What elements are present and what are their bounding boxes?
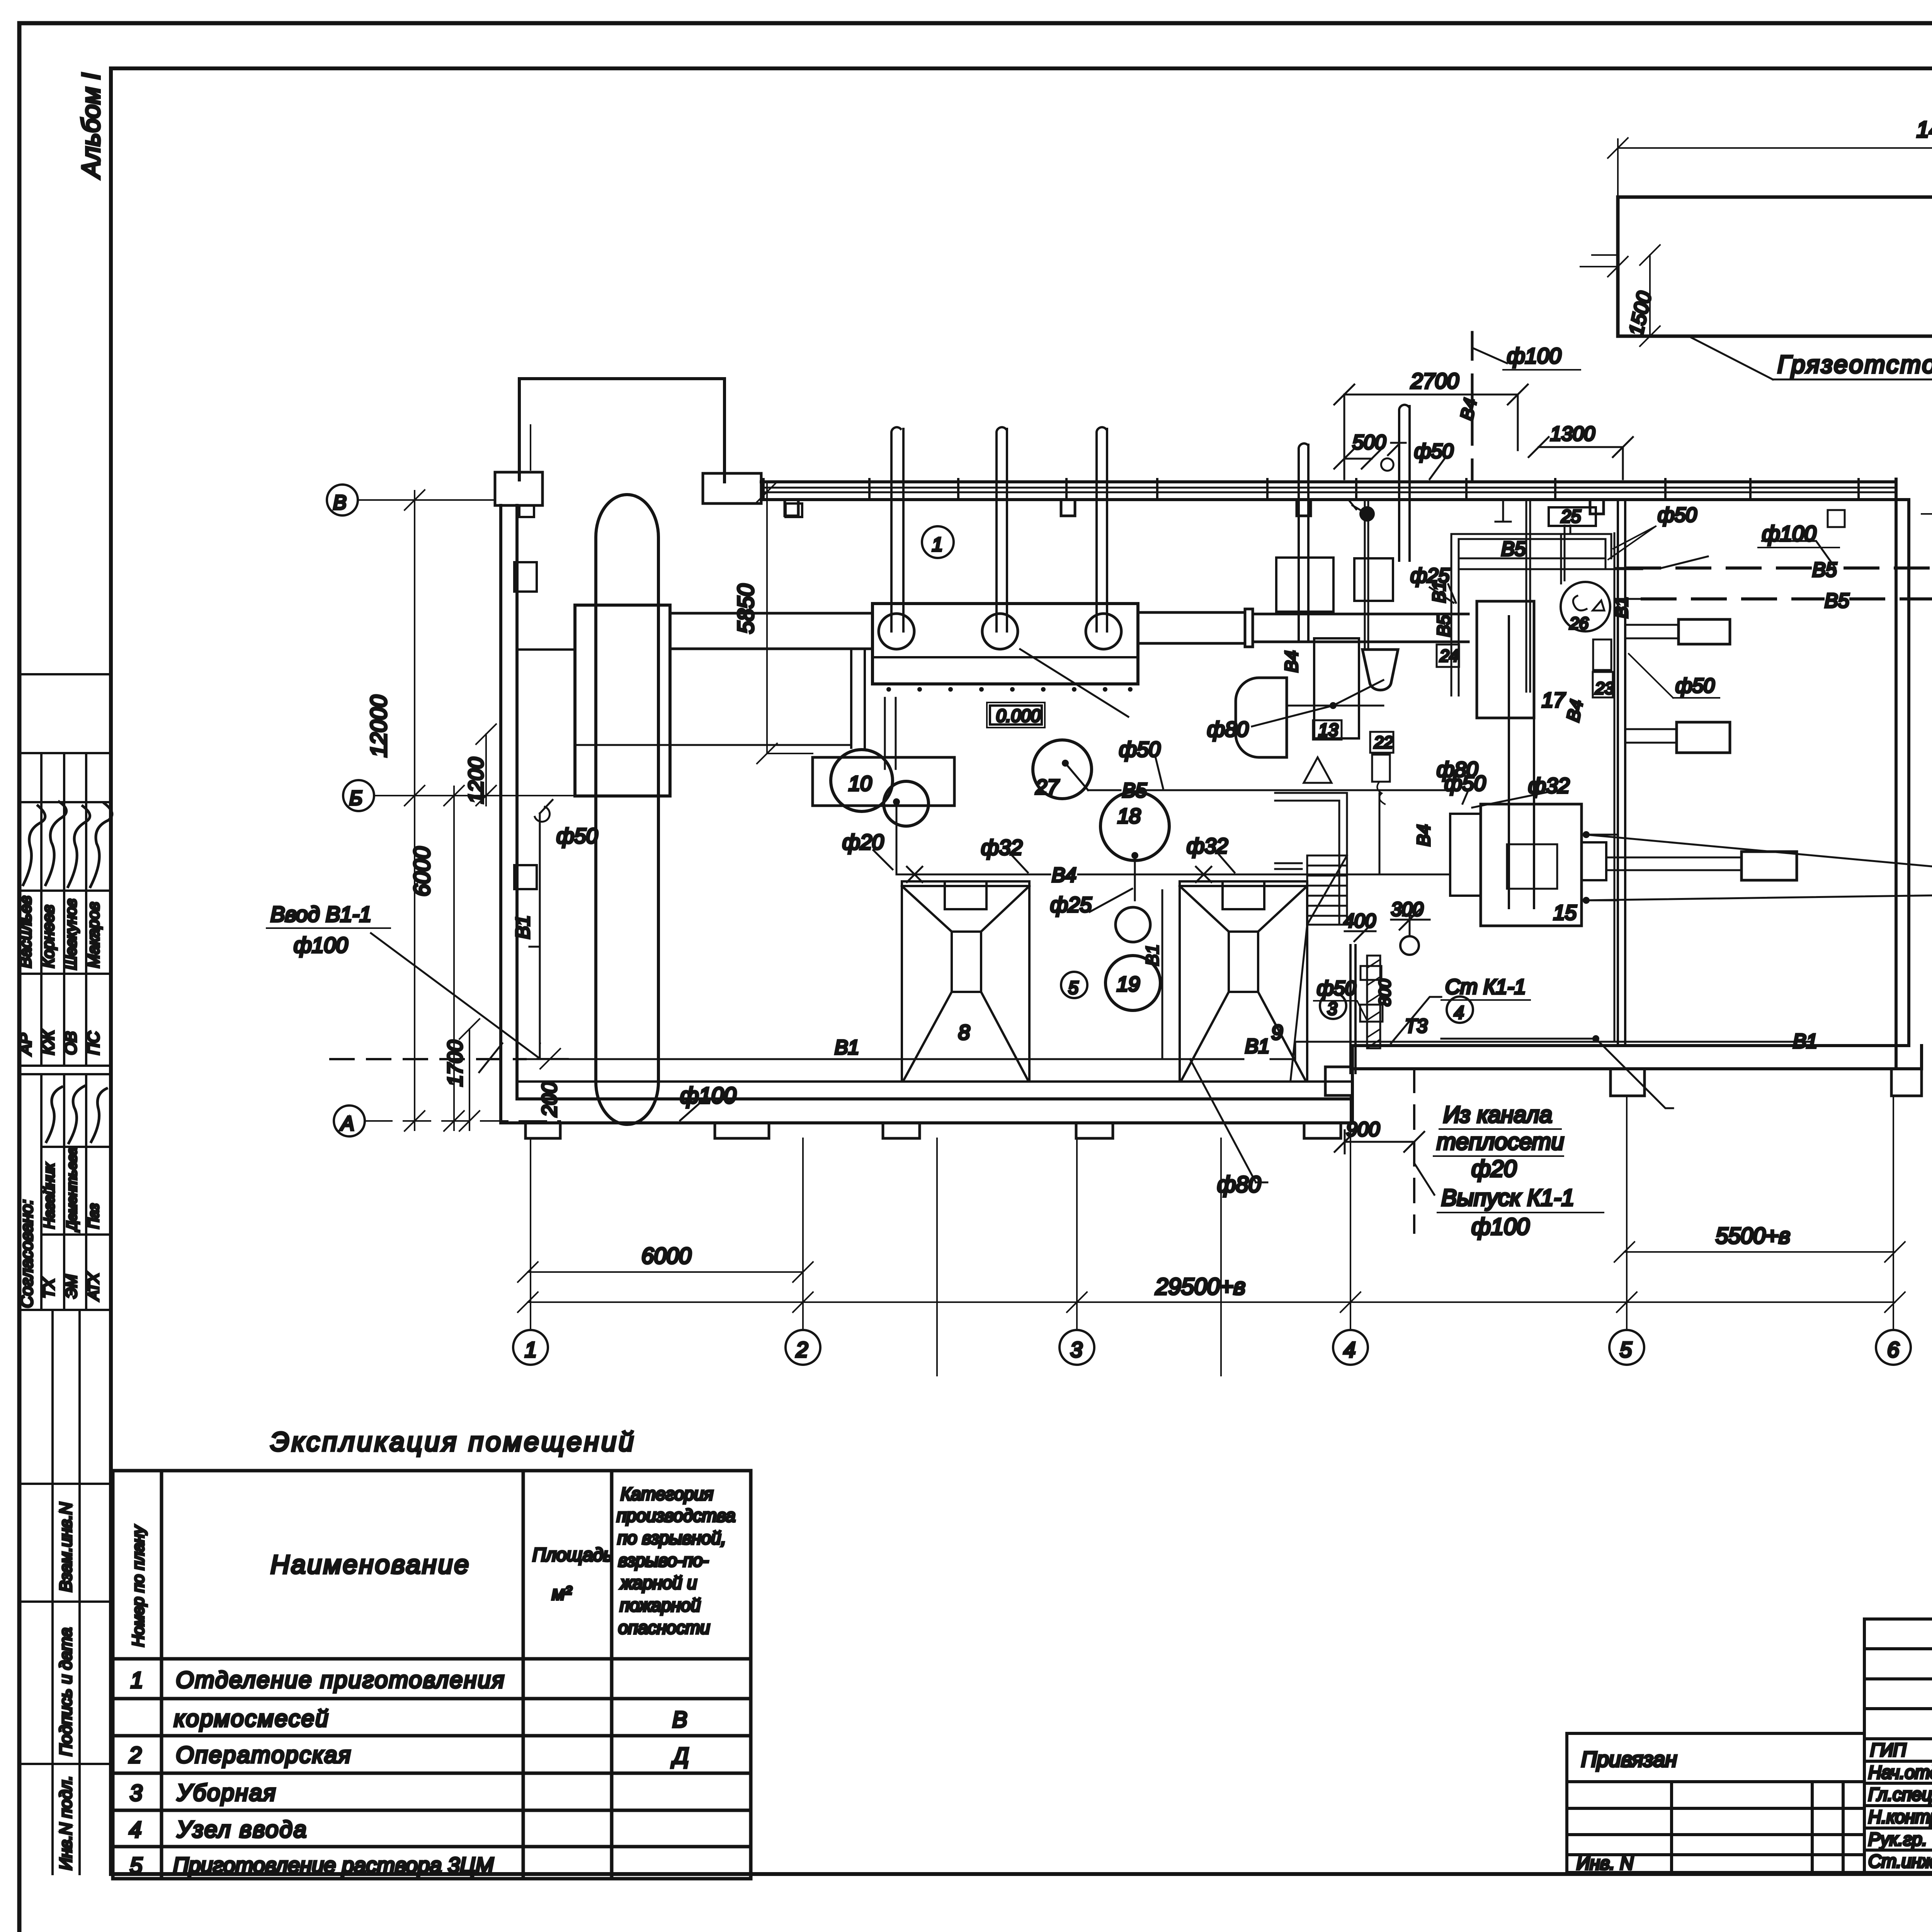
- svg-text:ф20: ф20: [842, 830, 884, 854]
- svg-text:В4: В4: [1413, 825, 1434, 846]
- axis circle 4: [1333, 1330, 1368, 1365]
- leader Ф25 long right: [1586, 835, 1932, 900]
- signature squiggle 6: [69, 1086, 84, 1143]
- svg-text:Площадь: Площадь: [532, 1545, 613, 1565]
- svg-text:800: 800: [1376, 979, 1394, 1006]
- svg-text:5: 5: [1620, 1337, 1632, 1362]
- axis circle 3: [1060, 1330, 1094, 1365]
- mixer body: [872, 604, 1138, 684]
- step between bottom walls: [1351, 1046, 1354, 1099]
- pipe B5 dashed right bottom: [1642, 336, 1932, 599]
- svg-text:по взрывной,: по взрывной,: [617, 1528, 726, 1548]
- svg-text:Васильев: Васильев: [16, 896, 34, 968]
- svg-text:1300: 1300: [1550, 423, 1595, 445]
- svg-text:1500: 1500: [1625, 289, 1656, 338]
- svg-text:1700: 1700: [444, 1040, 467, 1087]
- machine 15 left attach: [1450, 814, 1481, 896]
- leader Ф100 bottom left: [680, 1097, 707, 1121]
- dims 450 950: [1580, 257, 1932, 346]
- svg-text:В4: В4: [1281, 651, 1301, 672]
- funnel symbol near pipe4: [1304, 757, 1332, 783]
- right side equip rect 1: [1679, 619, 1730, 644]
- svg-text:Инв.N подл.: Инв.N подл.: [56, 1776, 75, 1870]
- chimney pipe 3: [1097, 427, 1107, 631]
- svg-text:В1: В1: [1611, 597, 1631, 618]
- equipment 10 box: [813, 757, 954, 806]
- axis circle Б: [343, 780, 374, 811]
- leader Ф100 top: [1472, 348, 1507, 363]
- conveyor duct from tank: [670, 613, 872, 649]
- svg-text:2: 2: [129, 1743, 141, 1768]
- pilaster top wall left end: [703, 473, 761, 503]
- svg-text:В1: В1: [1429, 581, 1449, 603]
- box left of pipe4: [1276, 558, 1333, 612]
- svg-text:4: 4: [1454, 1002, 1464, 1022]
- svg-text:ф80: ф80: [1437, 757, 1478, 781]
- pipe B1 ввод vertical left: [526, 813, 540, 1059]
- pilaster top-left: [495, 472, 543, 505]
- equip below 22: [1372, 755, 1390, 782]
- signature squiggle 2: [46, 802, 66, 885]
- svg-text:5: 5: [130, 1853, 143, 1878]
- svg-text:ПС: ПС: [84, 1031, 102, 1055]
- leader Ф32 left: [1012, 856, 1028, 872]
- pipe from 18 down: [1134, 855, 1136, 900]
- equipment 10 small circle: [884, 781, 929, 826]
- svg-text:Номер по плану: Номер по плану: [129, 1525, 147, 1647]
- pipe T3: [1441, 1038, 1596, 1040]
- top-left annex walls: [519, 379, 724, 482]
- svg-text:1: 1: [525, 1337, 537, 1362]
- label box 24: [1437, 645, 1459, 667]
- mixer diagonal pointer: [1020, 649, 1128, 717]
- svg-text:ф50: ф50: [556, 824, 598, 848]
- svg-text:Узел ввода: Узел ввода: [177, 1816, 308, 1842]
- bottom dim 29500: [518, 1292, 1905, 1312]
- svg-text:Согласовано:: Согласовано:: [17, 1199, 36, 1308]
- leader Ф50 right: [1662, 556, 1708, 568]
- svg-text:10: 10: [849, 772, 872, 795]
- svg-text:24: 24: [1439, 646, 1459, 665]
- wall to jacket link: [517, 648, 575, 651]
- svg-text:400: 400: [1344, 910, 1376, 932]
- svg-text:АТХ: АТХ: [86, 1272, 102, 1301]
- svg-text:26: 26: [1569, 614, 1588, 633]
- leader Ф80 mid: [1252, 706, 1333, 726]
- leader Ф32 bundle: [1472, 792, 1548, 808]
- dim 5850 vertical: [757, 482, 813, 764]
- svg-text:Наименование: Наименование: [270, 1550, 470, 1579]
- svg-text:взрыво-по-: взрыво-по-: [618, 1550, 709, 1570]
- svg-text:17: 17: [1542, 689, 1566, 712]
- svg-text:м²: м²: [552, 1582, 572, 1604]
- svg-text:Подпись и дата: Подпись и дата: [56, 1628, 75, 1756]
- axis 6 vertical: [1893, 1096, 1894, 1330]
- pump 13 rounded: [1236, 678, 1287, 757]
- left wall pilaster b: [514, 865, 537, 889]
- svg-text:ф100: ф100: [294, 933, 348, 957]
- axis circle 5: [1609, 1330, 1644, 1365]
- foundation line under hopper9: [1220, 1138, 1222, 1376]
- svg-text:Ст К1-1: Ст К1-1: [1445, 975, 1526, 998]
- svg-text:6000: 6000: [641, 1243, 691, 1269]
- dim 2720/3500 vertical: [1922, 187, 1932, 524]
- pipe B4 horiz from 13: [1287, 680, 1383, 706]
- svg-text:В5: В5: [1812, 559, 1837, 581]
- pipe B4 dashed vertical above wall: [1471, 332, 1474, 479]
- svg-text:6: 6: [1887, 1337, 1900, 1362]
- small circle above 19: [1116, 907, 1150, 942]
- svg-text:ф100: ф100: [1762, 521, 1816, 546]
- dim 300: [1391, 910, 1430, 930]
- riser stub 2: [885, 698, 896, 769]
- chimney pipe 1: [891, 427, 903, 631]
- svg-text:ф32: ф32: [981, 835, 1022, 859]
- bottom dim 6000: [518, 1262, 813, 1282]
- svg-text:500: 500: [1352, 431, 1386, 454]
- svg-text:В1: В1: [1245, 1035, 1270, 1058]
- signature squiggle 4: [90, 803, 112, 887]
- leader Ф50 bundle: [1430, 587, 1454, 603]
- label box 22: [1370, 732, 1393, 753]
- svg-text:ф80: ф80: [1207, 717, 1249, 741]
- axis line В: [358, 499, 495, 501]
- label box 23: [1593, 639, 1611, 670]
- leader СтК1: [1391, 997, 1441, 1043]
- svg-text:Нагайник: Нагайник: [41, 1163, 58, 1229]
- B1 stubs to Ф25 dots: [1586, 835, 1618, 900]
- axis circle 6: [1876, 1330, 1911, 1365]
- svg-text:5850: 5850: [733, 584, 759, 634]
- signature squiggle 7: [91, 1088, 107, 1142]
- staff table: [1864, 1619, 1932, 1872]
- dim 14720: [1608, 138, 1932, 197]
- room circle 1: [922, 526, 954, 558]
- svg-text:2: 2: [796, 1337, 808, 1362]
- svg-text:ф32: ф32: [1528, 774, 1570, 798]
- svg-text:жарной и: жарной и: [620, 1573, 697, 1593]
- room circle 3: [1320, 993, 1346, 1019]
- foundation line under hopper8: [936, 1138, 938, 1376]
- long drive line through tank: [576, 744, 850, 746]
- svg-text:300: 300: [1391, 898, 1423, 920]
- svg-text:ЭМ: ЭМ: [63, 1274, 80, 1298]
- bottom dim 5500+в: [1614, 1242, 1905, 1262]
- svg-text:В5: В5: [1501, 538, 1526, 560]
- svg-text:В: В: [333, 492, 347, 514]
- equipment 10 big circle: [831, 750, 893, 811]
- svg-text:кормосмесей: кормосмесей: [174, 1706, 329, 1731]
- svg-text:Взам.инв.N: Взам.инв.N: [56, 1502, 75, 1592]
- dim 6000-1200-1700 line: [444, 786, 464, 1131]
- chimney pipe 2: [997, 427, 1007, 631]
- machine 15 body: [1481, 804, 1582, 926]
- svg-text:А: А: [340, 1112, 354, 1135]
- ввод tick: [479, 1043, 502, 1072]
- leader Ф80 bundle: [1463, 790, 1468, 804]
- sidebar GOST label grid: [19, 1310, 111, 1874]
- svg-text:ф80: ф80: [1217, 1172, 1261, 1197]
- signature squiggle 1: [23, 806, 45, 885]
- svg-text:1: 1: [932, 534, 943, 555]
- svg-text:23: 23: [1595, 679, 1614, 698]
- svg-text:Макаров: Макаров: [84, 902, 102, 968]
- label box 25: [1549, 507, 1596, 526]
- axis 3 vertical: [1076, 1138, 1078, 1330]
- svg-text:12000: 12000: [366, 695, 391, 757]
- circle 27: [1033, 740, 1092, 799]
- svg-text:0.000: 0.000: [996, 706, 1041, 726]
- svg-text:В4: В4: [1052, 864, 1077, 886]
- svg-text:5: 5: [1068, 978, 1078, 998]
- mixer port circle 3: [1086, 614, 1121, 649]
- small box top near 500 dim: [1354, 558, 1393, 601]
- pipe 4: [1299, 444, 1308, 642]
- machine 17 inner bar: [1509, 616, 1534, 908]
- room circle 4: [1447, 997, 1473, 1023]
- svg-text:2700: 2700: [1410, 369, 1459, 393]
- svg-text:В5: В5: [1825, 590, 1850, 612]
- circle 26: [1561, 582, 1610, 631]
- svg-text:Рук.гр.: Рук.гр.: [1868, 1829, 1927, 1849]
- pipe bundle vertical: [1451, 500, 1565, 696]
- svg-text:3: 3: [130, 1781, 142, 1806]
- room3 partition wall: [1350, 945, 1355, 1073]
- pipe B4 main: [896, 802, 1450, 874]
- svg-text:Корнеев: Корнеев: [39, 905, 57, 968]
- svg-text:ф50: ф50: [1317, 977, 1356, 1000]
- svg-text:пожарной: пожарной: [620, 1595, 701, 1615]
- pipe B1 riser right of 19: [1162, 890, 1163, 1059]
- pipe 5: [1399, 405, 1410, 561]
- svg-text:В: В: [672, 1707, 687, 1732]
- signature squiggle 5: [46, 1087, 62, 1142]
- svg-text:6000: 6000: [410, 847, 435, 896]
- axis stubs to dim line: [531, 1272, 803, 1302]
- valve flag on B1: [535, 800, 553, 822]
- wall pilasters bottom: [526, 500, 1922, 1138]
- leader Ф80 bottom: [1190, 1059, 1267, 1182]
- svg-text:ОВ: ОВ: [61, 1031, 80, 1055]
- pipe B1 vertical right wall: [1614, 533, 1616, 1040]
- svg-text:900: 900: [1346, 1118, 1380, 1141]
- valve B4 right: [1196, 867, 1211, 882]
- axis 5 vertical: [1626, 1096, 1628, 1330]
- svg-text:13: 13: [1318, 720, 1338, 740]
- svg-text:Ввод В1-1: Ввод В1-1: [270, 902, 371, 926]
- pipe bundle top elbows to box25: [1451, 526, 1611, 558]
- label box 13: [1313, 720, 1342, 740]
- top wall inner line: [761, 498, 1909, 501]
- axis 2 vertical: [802, 1138, 804, 1330]
- circle 19: [1105, 956, 1160, 1010]
- window mullions: [764, 479, 1859, 500]
- leader Выпуск: [1414, 1163, 1434, 1195]
- pipe down from 22: [1379, 793, 1381, 874]
- svg-text:ф100: ф100: [1471, 1214, 1529, 1240]
- small tee near axis4 top: [1495, 500, 1511, 522]
- window sill hooks below top wall: [785, 500, 1604, 516]
- svg-text:5500+в: 5500+в: [1716, 1223, 1790, 1248]
- dim 200 ticks: [537, 1043, 568, 1069]
- mixer port circle 1: [879, 614, 914, 649]
- svg-text:ф20: ф20: [1471, 1156, 1517, 1182]
- centerline axis right: [1922, 513, 1932, 515]
- sidebar block 2 grid (Согласовано): [19, 1074, 111, 1310]
- axis line Б: [374, 795, 670, 796]
- svg-text:производства: производства: [617, 1505, 735, 1526]
- svg-text:Альбом I: Альбом I: [77, 73, 105, 179]
- leader Ф25 mid: [1090, 889, 1132, 912]
- svg-text:Инв. N: Инв. N: [1577, 1853, 1633, 1874]
- svg-text:Ст.инж.: Ст.инж.: [1868, 1851, 1932, 1871]
- svg-text:3: 3: [1070, 1337, 1082, 1362]
- svg-text:Уборная: Уборная: [177, 1780, 277, 1806]
- svg-text:14720: 14720: [1917, 117, 1932, 142]
- capsule jacket box: [575, 605, 670, 796]
- pipe to bucket: [1365, 500, 1368, 650]
- svg-text:В1: В1: [1142, 944, 1162, 966]
- window band glazing segments: [761, 488, 1896, 492]
- svg-text:ТХ: ТХ: [41, 1278, 58, 1298]
- bottom wall right section: [1352, 1046, 1922, 1069]
- leader 2700/500 region: [1334, 384, 1528, 479]
- room circle 5: [1061, 972, 1087, 998]
- svg-text:ф50: ф50: [1119, 737, 1161, 761]
- axis line А: [365, 1120, 560, 1122]
- dim 1500: [1592, 245, 1660, 346]
- left wall pilaster a: [514, 562, 537, 592]
- svg-text:9: 9: [1271, 1021, 1283, 1044]
- hopper 9: [1180, 881, 1307, 1080]
- svg-text:Операторская: Операторская: [176, 1742, 352, 1768]
- valve B4 left: [907, 867, 922, 882]
- leader Ф50 top mid: [1155, 757, 1163, 788]
- ввод leader: [371, 933, 539, 1058]
- svg-text:КЖ: КЖ: [39, 1029, 57, 1055]
- svg-text:ф100: ф100: [680, 1083, 736, 1108]
- hopper 8: [902, 881, 1029, 1080]
- axis 4 vertical: [1350, 1096, 1351, 1330]
- leader Ф100 right: [1762, 541, 1835, 568]
- mixer port circle 2: [982, 614, 1018, 649]
- svg-text:Н.контр.: Н.контр.: [1868, 1806, 1932, 1827]
- machine 17 outer: [1477, 601, 1534, 718]
- svg-text:Приготовление раствора 3ЦМ: Приготовление раствора 3ЦМ: [173, 1853, 494, 1877]
- header Категория: [617, 1484, 735, 1638]
- svg-text:4: 4: [1344, 1337, 1355, 1362]
- interior wall x4195: [1618, 500, 1625, 1046]
- svg-text:Выпуск К1-1: Выпуск К1-1: [1441, 1185, 1574, 1211]
- bottom wall left section: [501, 1099, 1352, 1123]
- top wall outer line: [761, 480, 1896, 483]
- machine 15 inner: [1507, 844, 1557, 889]
- svg-text:В4: В4: [1563, 698, 1587, 723]
- circle 18: [1100, 792, 1169, 861]
- svg-text:Экспликация помещений: Экспликация помещений: [270, 1427, 636, 1457]
- svg-text:29500+в: 29500+в: [1155, 1274, 1245, 1299]
- svg-text:ф50: ф50: [1414, 440, 1453, 463]
- leader Ф50 top: [1430, 458, 1445, 479]
- right outer wall (double): [1896, 479, 1909, 1069]
- svg-text:теплосети: теплосети: [1437, 1129, 1564, 1155]
- svg-text:Дементьева: Дементьева: [64, 1147, 80, 1232]
- dim 400: [1345, 921, 1376, 941]
- svg-text:Шевкунов: Шевкунов: [63, 899, 80, 970]
- svg-text:Отделение приготовления: Отделение приготовления: [176, 1667, 505, 1693]
- svg-text:Грязеотстойник: Грязеотстойник: [1777, 350, 1932, 378]
- right side equip rect 3: [1742, 852, 1797, 880]
- svg-text:Гл.спец.: Гл.спец.: [1868, 1784, 1932, 1804]
- svg-text:В5: В5: [1122, 779, 1147, 802]
- pipe B5 from 27: [1065, 763, 1455, 790]
- привязан block: [1567, 1733, 1864, 1872]
- equip below 23: [1593, 672, 1613, 697]
- svg-text:АР: АР: [16, 1033, 34, 1056]
- signature squiggle 3: [68, 806, 90, 887]
- B5 elbow from building: [1461, 558, 1642, 599]
- svg-text:В1: В1: [512, 915, 534, 939]
- axis circle В: [327, 485, 358, 515]
- svg-text:1200: 1200: [464, 757, 488, 804]
- stK1 hatched column: [1367, 956, 1380, 1048]
- svg-text:В1: В1: [1793, 1030, 1818, 1053]
- axis circle 2: [786, 1330, 820, 1365]
- svg-text:15: 15: [1553, 901, 1577, 924]
- axis circle А: [334, 1105, 365, 1136]
- svg-text:В1: В1: [835, 1036, 859, 1059]
- small square on wall right: [1828, 510, 1845, 527]
- svg-text:Паз: Паз: [86, 1204, 102, 1229]
- axis circle 1: [513, 1330, 548, 1365]
- svg-text:200: 200: [538, 1082, 561, 1117]
- svg-text:25: 25: [1561, 506, 1581, 526]
- svg-text:1: 1: [131, 1668, 143, 1693]
- left wall (double): [501, 505, 517, 1123]
- leader Ф25 top: [1448, 584, 1456, 603]
- pipe B5 dashed right top: [1627, 336, 1932, 568]
- svg-text:опасности: опасности: [618, 1617, 710, 1638]
- svg-text:ф50: ф50: [1675, 675, 1714, 697]
- mixer underline dots: [886, 687, 1133, 692]
- svg-text:В4: В4: [1456, 396, 1481, 422]
- leader Ф20: [873, 850, 893, 869]
- svg-text:4: 4: [129, 1817, 141, 1842]
- dim 1700 ticks: [459, 1019, 480, 1131]
- bucket equipment: [1362, 650, 1398, 690]
- svg-text:18: 18: [1117, 804, 1141, 828]
- leader Ф32 right: [1219, 855, 1235, 872]
- dim 900: [1335, 1130, 1424, 1153]
- leader Из канала: [1596, 1039, 1673, 1108]
- svg-text:ф100: ф100: [1507, 344, 1561, 368]
- valve near 500: [1381, 443, 1406, 471]
- machine 15 right attach: [1582, 842, 1606, 880]
- pump near 400 dim: [1400, 936, 1419, 955]
- elevation mark 0.000: [990, 706, 1042, 724]
- equip rect above 13: [1314, 638, 1359, 738]
- right side equip rect 2: [1677, 722, 1730, 753]
- axis 1 vertical: [530, 425, 531, 1330]
- manometer symbol: [1359, 506, 1375, 522]
- svg-text:27: 27: [1035, 776, 1060, 799]
- svg-text:ф25: ф25: [1050, 893, 1092, 917]
- svg-text:ГИП: ГИП: [1870, 1740, 1906, 1760]
- dim 12000 vertical: [405, 490, 425, 1131]
- sidebar signature table block 1 grid: [19, 674, 111, 1066]
- svg-text:Т3: Т3: [1405, 1015, 1428, 1037]
- stairs: [1275, 793, 1347, 1080]
